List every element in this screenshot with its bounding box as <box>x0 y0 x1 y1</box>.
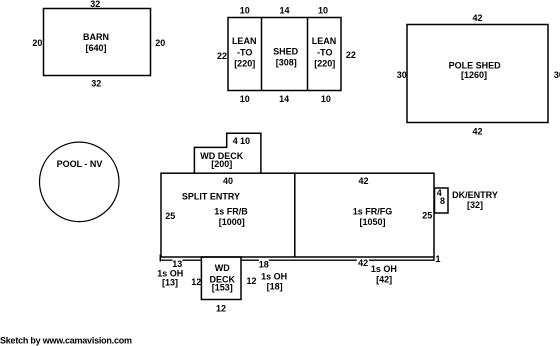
svg-text:DK/ENTRY: DK/ENTRY <box>452 190 498 200</box>
svg-text:1s FR/FG: 1s FR/FG <box>353 206 393 216</box>
svg-text:SHED: SHED <box>273 47 299 57</box>
svg-text:[42]: [42] <box>376 275 392 285</box>
overhang line segment 3 <box>241 259 259 261</box>
overhang left tick <box>159 255 161 262</box>
svg-text:42: 42 <box>358 176 368 186</box>
main house outline <box>161 173 434 257</box>
svg-text:12: 12 <box>191 277 201 287</box>
svg-text:LEAN: LEAN <box>232 36 257 46</box>
svg-text:40: 40 <box>223 176 233 186</box>
svg-text:32: 32 <box>91 79 101 89</box>
svg-text:10: 10 <box>240 6 250 16</box>
pool circle <box>40 142 120 222</box>
svg-text:22: 22 <box>217 51 227 61</box>
wood deck upper outline (L-shape) <box>194 133 261 173</box>
svg-text:[1050]: [1050] <box>359 217 385 227</box>
svg-text:25: 25 <box>422 210 432 220</box>
svg-text:30: 30 <box>554 70 560 80</box>
svg-text:8: 8 <box>440 196 445 206</box>
overhang right edge closure <box>433 257 435 261</box>
svg-text:18: 18 <box>259 259 269 269</box>
svg-text:[18]: [18] <box>267 282 283 292</box>
svg-text:42: 42 <box>358 258 368 268</box>
svg-text:[32]: [32] <box>467 200 483 210</box>
svg-text:12: 12 <box>246 276 256 286</box>
svg-text:[1000]: [1000] <box>219 217 245 227</box>
svg-text:[640]: [640] <box>85 43 106 53</box>
svg-text:1s OH: 1s OH <box>261 271 287 281</box>
svg-text:POOL - NV: POOL - NV <box>57 159 103 169</box>
svg-text:13: 13 <box>172 259 182 269</box>
dk/entry box outline <box>435 188 449 213</box>
svg-text:SPLIT ENTRY: SPLIT ENTRY <box>182 191 240 201</box>
svg-text:1s FR/B: 1s FR/B <box>214 206 248 216</box>
svg-text:[308]: [308] <box>276 57 297 67</box>
svg-text:20: 20 <box>155 38 165 48</box>
svg-text:14: 14 <box>279 6 289 16</box>
svg-text:4: 4 <box>233 136 238 146</box>
svg-text:-TO: -TO <box>237 48 252 58</box>
svg-text:[1260]: [1260] <box>461 70 487 80</box>
svg-text:-TO: -TO <box>317 48 332 58</box>
svg-text:10: 10 <box>321 94 331 104</box>
svg-text:BARN: BARN <box>83 32 109 42</box>
svg-text:WD: WD <box>215 263 230 273</box>
svg-text:[220]: [220] <box>314 59 335 69</box>
svg-text:42: 42 <box>472 13 482 23</box>
house section divider <box>294 173 296 257</box>
pole shed outline <box>407 25 548 123</box>
svg-text:22: 22 <box>346 50 356 60</box>
svg-text:POLE SHED: POLE SHED <box>449 61 502 71</box>
svg-text:10: 10 <box>318 6 328 16</box>
shed divider right <box>307 18 309 91</box>
svg-text:30: 30 <box>397 70 407 80</box>
svg-text:[220]: [220] <box>234 59 255 69</box>
svg-text:20: 20 <box>32 38 42 48</box>
svg-text:12: 12 <box>216 304 226 314</box>
svg-text:32: 32 <box>90 0 100 9</box>
overhang line segment 4 <box>269 259 357 261</box>
svg-text:14: 14 <box>279 94 289 104</box>
overhang line segment 2 <box>183 259 202 261</box>
svg-text:1: 1 <box>435 254 440 264</box>
shed composite outline <box>228 18 341 91</box>
svg-text:1s OH: 1s OH <box>371 264 397 274</box>
svg-text:LEAN: LEAN <box>312 36 337 46</box>
barn outline <box>44 9 151 76</box>
svg-text:42: 42 <box>472 127 482 137</box>
svg-text:Sketch by www.camavision.com: Sketch by www.camavision.com <box>0 336 132 346</box>
svg-text:[153]: [153] <box>212 283 233 293</box>
svg-text:25: 25 <box>165 211 175 221</box>
overhang line segment 5 <box>369 259 434 261</box>
svg-text:10: 10 <box>240 94 250 104</box>
svg-text:10: 10 <box>240 136 250 146</box>
wood deck lower outline <box>201 257 241 300</box>
svg-text:[13]: [13] <box>162 278 178 288</box>
svg-text:[200]: [200] <box>211 159 232 169</box>
overhang line segment 1 <box>161 259 173 261</box>
shed divider left <box>261 18 263 91</box>
